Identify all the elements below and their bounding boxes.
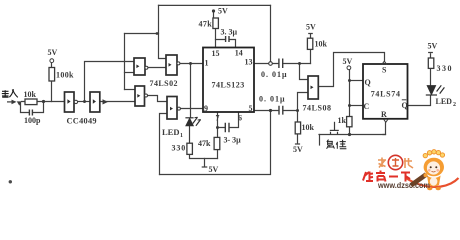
input jack arrow [7, 100, 22, 106]
wire 10k top drop [310, 49, 312, 63]
wire pin5 net [254, 110, 298, 112]
LED LED1 [185, 117, 200, 126]
wire 330 to 5V rail [190, 154, 218, 158]
caret S pin [382, 61, 387, 64]
gate A 74LS02 [134, 58, 145, 75]
node C junction [348, 104, 351, 107]
svg-text:C: C [364, 102, 370, 111]
wire reset left tick [319, 135, 321, 146]
svg-text:www.dzsc.com: www.dzsc.com [377, 181, 430, 190]
node pin7 junction [216, 126, 219, 129]
svg-text:3. 3μ: 3. 3μ [221, 28, 238, 37]
svg-text:LED: LED [162, 127, 179, 137]
svg-text:5V: 5V [293, 145, 303, 154]
capacitor 100p [29, 110, 32, 116]
capacitor 0.01u bottom [279, 106, 283, 115]
svg-text:5V: 5V [343, 57, 353, 66]
wire 3.3u bottom leads [218, 112, 239, 128]
svg-text:100p: 100p [24, 116, 41, 125]
wire Qbar to LED2 [408, 96, 431, 106]
svg-text:5V: 5V [306, 23, 316, 32]
svg-text:74LS08: 74LS08 [303, 104, 332, 113]
wire pin7 down [217, 112, 219, 137]
svg-text:1k: 1k [338, 116, 347, 125]
node 5V top supply dot [212, 9, 215, 12]
capacitor 0.01u top [279, 59, 283, 69]
svg-text:100k: 100k [56, 71, 74, 80]
node cap/main wire [42, 100, 45, 103]
wire 47k top chain [214, 13, 216, 48]
svg-text:330: 330 [437, 64, 454, 73]
svg-text:74LS02: 74LS02 [150, 79, 179, 88]
wire gate C out to pin1 [180, 63, 203, 65]
wire into gate B upper input [125, 89, 136, 91]
svg-text:10k: 10k [315, 40, 328, 49]
wire LED2 to 330 [430, 68, 432, 85]
arrowhead on CC4049 output [103, 99, 109, 104]
bubble gate A [145, 66, 148, 69]
svg-text:9: 9 [204, 104, 208, 113]
wire branch y33 [125, 33, 159, 35]
terminal circle pin13 [269, 62, 273, 66]
svg-text:1: 1 [180, 133, 183, 139]
wire 330 to 5V right [429, 53, 433, 58]
wire pin5 to 74LS08 lower input [298, 93, 309, 111]
svg-text:5V: 5V [209, 165, 219, 174]
resistor 47k top [213, 18, 219, 29]
svg-text:47k: 47k [198, 139, 211, 148]
wire top feedback horizontal [159, 4, 271, 6]
svg-text:7: 7 [216, 114, 220, 123]
watermark outlined text 我找片 [378, 158, 413, 169]
svg-text:74LS123: 74LS123 [212, 81, 245, 90]
svg-text:14: 14 [235, 49, 243, 58]
svg-text:15: 15 [212, 49, 220, 58]
watermark [363, 150, 459, 191]
watermark mascot [405, 150, 459, 191]
wire 5V to 1k vertical [349, 70, 351, 117]
wire LED1 to 330 [189, 126, 191, 143]
wire bottom long [160, 111, 271, 175]
gate inner marks [67, 63, 313, 110]
svg-text:10k: 10k [24, 90, 37, 99]
resistor 10k input [25, 99, 37, 105]
IC U2 74LS123 [203, 48, 254, 113]
wire between CC4049 gates [77, 101, 90, 103]
node 1k/reset junction [348, 133, 351, 136]
node Q junction [348, 79, 351, 82]
wire LED1 vertical from pin1 net [190, 64, 192, 118]
svg-text:2: 2 [453, 102, 456, 108]
inverter U1b CC4049 [90, 92, 100, 112]
wire gate A out to gate C [148, 67, 166, 69]
wire branch x124 vertical [124, 34, 126, 90]
svg-text:5V: 5V [218, 7, 228, 16]
svg-text:S: S [382, 66, 387, 75]
resistor 330 left [187, 143, 193, 154]
svg-text:47k: 47k [199, 20, 213, 29]
wire cap loop left [21, 104, 29, 113]
wire top feedback right vertical [270, 5, 272, 61]
wire gate B out [148, 96, 167, 102]
node pin1 junction [189, 62, 192, 65]
svg-text:330: 330 [172, 144, 187, 153]
wire gate D input2 [160, 114, 168, 175]
wire stub to gate A lower input [125, 72, 135, 74]
watermark text 维库一下 [363, 171, 410, 182]
terminal 5V left [50, 59, 54, 63]
node pin13/10k junction [298, 62, 301, 65]
glyph 复位 (reset) [327, 140, 347, 149]
wire CC4049 output to gate B [100, 101, 135, 103]
gate D 74LS02 [167, 97, 177, 120]
IC U4 74LS74 [363, 64, 408, 119]
svg-text:1: 1 [205, 59, 209, 68]
wire main input line [22, 101, 65, 103]
resistor 100k [49, 68, 55, 82]
svg-text:74LS74: 74LS74 [371, 90, 401, 99]
scan speck [9, 180, 12, 183]
capacitor 3.3u bottom [225, 123, 229, 133]
bubble U1a [74, 100, 77, 103]
terminal 5V mid right [347, 66, 351, 70]
svg-text:CC4049: CC4049 [67, 117, 97, 126]
wire 100k chain [51, 63, 53, 102]
svg-text:Q: Q [402, 101, 408, 110]
wire cap loop right [33, 102, 44, 113]
caret R pin [384, 119, 388, 122]
wire C stub [350, 105, 364, 107]
resistor 47k bottom [214, 137, 220, 149]
wire pin13 net [254, 63, 311, 65]
svg-text:5V: 5V [48, 48, 58, 57]
node x158 y33 [156, 32, 159, 35]
gate B 74LS02 [135, 86, 145, 106]
svg-text:13: 13 [245, 58, 253, 67]
resistor 10k bottom [295, 122, 300, 134]
svg-text:R: R [381, 110, 387, 119]
node pin5/10k junction [296, 109, 299, 112]
bubble gate B [145, 94, 148, 97]
svg-text:10k: 10k [302, 123, 315, 132]
svg-text:0. 01μ: 0. 01μ [259, 95, 286, 104]
node CC4049 mid junction [83, 100, 86, 103]
watermark red circle stamp [388, 155, 402, 169]
svg-text:5V: 5V [428, 42, 438, 51]
resistor 10k top right [307, 38, 312, 49]
svg-text:LED: LED [436, 97, 453, 106]
svg-text:6: 6 [238, 114, 242, 123]
wire junction x84 up [85, 62, 135, 102]
glyph 输入 (input) [2, 90, 18, 98]
svg-text:3- 3μ: 3- 3μ [224, 136, 242, 145]
node pin5 junction [269, 109, 272, 112]
gate C 74LS02 [166, 55, 177, 75]
gate U3 74LS08 [308, 76, 318, 99]
svg-text:0. 01μ: 0. 01μ [261, 70, 288, 79]
wire pin13 to 74LS08 upper input [300, 64, 309, 80]
wire top feedback left vertical [159, 5, 167, 58]
wire 74LS08 output to S [318, 53, 384, 87]
wire R pin down [383, 122, 386, 134]
inverter U1a CC4049 [65, 92, 75, 112]
resistor 330 right [428, 58, 434, 68]
switch reset button [330, 122, 339, 135]
capacitor 3.3u top [226, 36, 229, 42]
bubble gate D [177, 107, 180, 110]
wire 5V stub bottom [202, 159, 206, 168]
wire reset line [319, 134, 386, 136]
svg-text:Q: Q [365, 78, 371, 87]
LED LED2 [426, 85, 445, 95]
wire 3.3u top leads [216, 40, 236, 48]
wire 1k to reset line [349, 127, 351, 135]
bubble gate C [177, 62, 180, 65]
wire 10k top to 5V [309, 34, 312, 39]
wire 47k bottom to rail [217, 150, 219, 159]
wire gate D out to pin9 [181, 108, 204, 110]
wire Q stub [350, 80, 364, 82]
resistor 1k [347, 117, 352, 127]
svg-text:5: 5 [249, 104, 253, 113]
wire 10k bottom [296, 111, 300, 145]
